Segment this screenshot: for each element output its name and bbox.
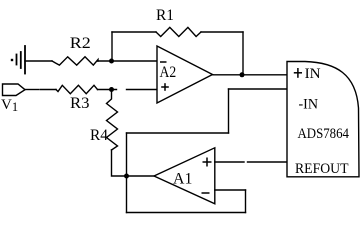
svg-text:R4: R4 (90, 127, 108, 144)
svg-text:REFOUT: REFOUT (295, 161, 349, 177)
svg-text:R2: R2 (70, 35, 91, 52)
svg-text:-IN: -IN (299, 97, 319, 113)
svg-text:IN: IN (305, 66, 322, 82)
svg-text:A2: A2 (160, 64, 177, 81)
svg-text:A1: A1 (173, 171, 192, 188)
svg-text:R3: R3 (70, 95, 90, 112)
svg-text:V1: V1 (1, 97, 18, 114)
svg-text:R1: R1 (156, 7, 174, 24)
svg-text:ADS7864: ADS7864 (298, 126, 350, 142)
